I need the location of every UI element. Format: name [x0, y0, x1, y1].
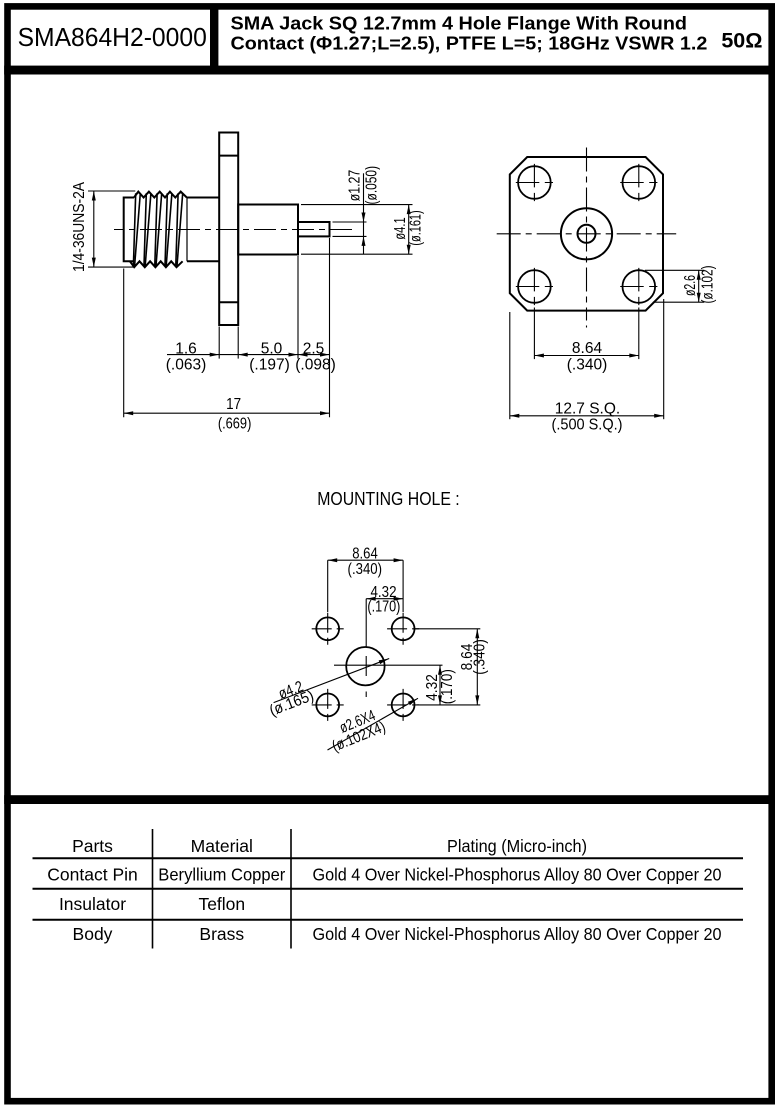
svg-text:Contact Pin: Contact Pin [47, 865, 137, 885]
flange (side view) [219, 133, 238, 326]
centerline (side view) [114, 229, 353, 231]
svg-text:(.098): (.098) [295, 356, 336, 373]
connector body (nut) outline [124, 198, 220, 262]
top 8.64 extension lines [327, 560, 329, 612]
dim line dia 1.27 [363, 173, 365, 254]
8.64 extension lines below holes [533, 308, 535, 360]
lower 4.32 extension line (center horizontal) [334, 664, 443, 666]
dim line 1.6 / 5.0 / 2.5 [167, 354, 330, 356]
svg-text:(.340): (.340) [472, 639, 489, 675]
thread helix lines [133, 193, 182, 265]
table row line 1 [33, 857, 744, 859]
dim line 12.7 S.Q. [510, 415, 664, 417]
svg-text:(.340): (.340) [348, 561, 383, 578]
svg-text:Gold 4 Over Nickel-Phosphorus: Gold 4 Over Nickel-Phosphorus Alloy 80 O… [313, 865, 722, 885]
dim line 8.64 right [476, 629, 478, 705]
svg-text:Insulator: Insulator [59, 894, 126, 914]
thread end vertical line [186, 198, 188, 262]
dim line dia 4.1 [408, 205, 410, 255]
vertical center dashes [365, 656, 367, 676]
lower dim extension lines [218, 327, 220, 359]
dim line 4.32 top [366, 598, 403, 600]
svg-text:5.0: 5.0 [261, 340, 283, 357]
svg-text:(.500 S.Q.): (.500 S.Q.) [552, 416, 623, 433]
leader line dia2.6X4 [328, 698, 419, 750]
svg-text:(.170): (.170) [367, 599, 400, 616]
header bottom thick bar [4, 66, 775, 75]
table column line 1 [152, 829, 154, 949]
svg-text:MOUNTING HOLE :: MOUNTING HOLE : [317, 488, 460, 509]
table row line 2 [33, 888, 744, 890]
dim line 4.32 lower [439, 665, 441, 705]
svg-text:Body: Body [73, 924, 113, 944]
svg-text:(.197): (.197) [249, 356, 290, 373]
svg-text:(.340): (.340) [567, 356, 608, 373]
dim line 8.64 [534, 355, 638, 357]
cylinder dia extension lines [301, 204, 413, 206]
drill hole top-right [392, 617, 415, 640]
svg-text:1/4-36UNS-2A: 1/4-36UNS-2A [71, 181, 88, 272]
dim line dia 2.6 [698, 270, 700, 302]
flange top chamfer line [219, 155, 238, 157]
svg-text:SMA864H2-0000: SMA864H2-0000 [18, 24, 207, 52]
thread dim extension lines [88, 190, 135, 192]
thread crest bottom zigzag [130, 261, 183, 267]
svg-text:50Ω: 50Ω [721, 28, 762, 52]
mounting hole bottom-right [623, 270, 656, 303]
svg-text:Plating (Micro-inch): Plating (Micro-inch) [447, 836, 587, 856]
svg-text:(.170): (.170) [439, 669, 456, 704]
vertical centerline [586, 148, 588, 321]
svg-text:(ø.050): (ø.050) [363, 166, 380, 205]
drill hole bottom-left [316, 694, 339, 717]
table column line 2 [290, 829, 292, 949]
svg-text:17: 17 [226, 396, 241, 413]
svg-text:Parts: Parts [72, 836, 113, 856]
drill hole bottom-right [392, 694, 415, 717]
thread dim line 1/4-36UNS-2A [93, 191, 95, 267]
svg-text:Brass: Brass [199, 924, 244, 944]
12.7 extension lines [509, 312, 511, 419]
svg-text:Material: Material [191, 836, 253, 856]
svg-text:12.7 S.Q.: 12.7 S.Q. [555, 400, 620, 417]
flange plate octagon outline [510, 157, 663, 311]
side view dimension texts [71, 166, 425, 433]
svg-text:SMA Jack SQ 12.7mm 4 Hole Flan: SMA Jack SQ 12.7mm 4 Hole Flange With Ro… [231, 13, 688, 34]
thread crest top zigzag [134, 192, 187, 198]
svg-text:(.669): (.669) [218, 416, 252, 433]
svg-text:Contact (Φ1.27;L=2.5), PTFE L=: Contact (Φ1.27;L=2.5), PTFE L=5; 18GHz V… [231, 33, 708, 54]
svg-text:ø1.27: ø1.27 [347, 170, 364, 202]
svg-text:8.64: 8.64 [572, 340, 603, 357]
mounting hole top-right [623, 166, 656, 199]
leader line dia4.2 [274, 659, 390, 703]
drill hole top-left [316, 617, 339, 640]
svg-text:Teflon: Teflon [198, 894, 245, 914]
svg-text:(ø.161): (ø.161) [408, 210, 425, 245]
header divider between part number box and title [210, 9, 218, 66]
center contact circle [578, 225, 596, 243]
svg-text:1.6: 1.6 [175, 340, 197, 357]
horizontal centerline [497, 233, 677, 235]
svg-text:(.063): (.063) [166, 356, 207, 373]
svg-text:Beryllium Copper: Beryllium Copper [158, 865, 285, 885]
svg-text:8.64: 8.64 [352, 546, 378, 563]
middle separator thick bar [4, 795, 775, 804]
table row line 3 [33, 919, 744, 921]
mounting view dimension texts [267, 546, 488, 756]
center drill hole [346, 647, 384, 685]
dia 2.6 extension lines [645, 269, 704, 271]
front view dimension texts [552, 266, 717, 434]
dim line 8.64 top [328, 559, 403, 561]
pin dia extension lines [333, 221, 367, 223]
body cylinder [238, 205, 298, 255]
svg-text:Gold 4 Over Nickel-Phosphorus: Gold 4 Over Nickel-Phosphorus Alloy 80 O… [313, 924, 722, 944]
contact pin [298, 222, 330, 236]
svg-text:ø2.6: ø2.6 [682, 275, 699, 296]
svg-text:(ø.102): (ø.102) [700, 266, 717, 304]
mounting hole top-left [518, 166, 551, 199]
flange bottom chamfer line [219, 301, 238, 303]
mounting hole bottom-left [518, 270, 551, 303]
top 4.32 extension line [365, 599, 367, 647]
svg-text:2.5: 2.5 [303, 340, 325, 357]
center insulator circle [561, 208, 612, 259]
right 8.64 extension lines [415, 628, 481, 630]
dim line 17 [124, 412, 330, 414]
